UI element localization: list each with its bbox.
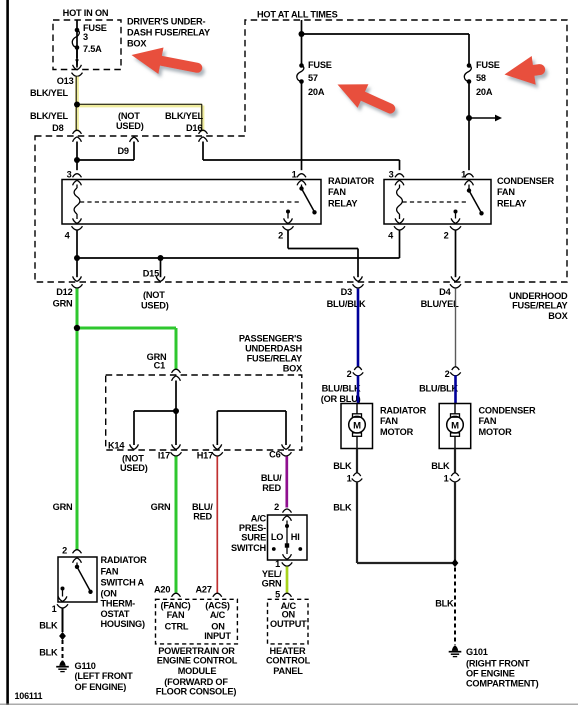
wire fuse3 top feed <box>76 20 78 66</box>
wire D16 to condenser pin3 <box>202 142 204 161</box>
connector pin4 radiator relay <box>73 218 82 223</box>
junction D15 tap <box>158 255 164 261</box>
svg-text:HEATER: HEATER <box>270 646 306 656</box>
underhood fuse/relay box (dashed outline) <box>35 20 567 282</box>
junction BLK switch <box>59 632 66 640</box>
wire branch to K14 <box>134 410 176 412</box>
svg-text:BLK/YEL: BLK/YEL <box>30 88 68 98</box>
svg-text:SURE: SURE <box>241 533 266 543</box>
connector I17 <box>172 444 181 449</box>
svg-text:USED): USED) <box>141 301 169 311</box>
svg-text:G110: G110 <box>75 661 96 671</box>
svg-text:2: 2 <box>347 369 352 379</box>
connector D9 (not used) <box>130 137 139 142</box>
svg-text:YEL/: YEL/ <box>262 569 282 579</box>
wire BLK to G110 (dashed) <box>62 640 64 660</box>
motor M1 RADIATOR FAN MOTOR <box>341 404 373 449</box>
wire BLU/BLK to radiator motor <box>357 375 360 403</box>
inline connector 2 (radiator motor) <box>354 367 362 370</box>
svg-text:HOUSING): HOUSING) <box>101 619 145 629</box>
connector D12 <box>73 276 82 281</box>
connector pin1 pressure switch <box>282 562 293 566</box>
svg-text:RED: RED <box>262 483 281 493</box>
svg-text:PANEL: PANEL <box>273 666 303 676</box>
connector H17 <box>213 444 222 449</box>
wire D15 drop <box>160 258 162 277</box>
svg-text:A20: A20 <box>154 585 170 595</box>
svg-text:BOX: BOX <box>283 364 303 374</box>
svg-text:4: 4 <box>388 231 394 241</box>
wire BLK radiator motor down <box>356 449 358 474</box>
svg-text:(NOT: (NOT <box>143 290 165 300</box>
svg-text:FUSE/RELAY: FUSE/RELAY <box>512 301 567 311</box>
svg-text:3: 3 <box>67 170 72 180</box>
svg-text:(NOT: (NOT <box>122 454 144 464</box>
wire BLK switch to junction <box>62 608 64 632</box>
wire BLK to G101 (dashed) <box>454 568 456 646</box>
svg-text:USED): USED) <box>116 121 144 131</box>
svg-text:1: 1 <box>52 604 57 614</box>
svg-text:CONTROL: CONTROL <box>266 656 311 666</box>
svg-text:RADIATOR: RADIATOR <box>328 176 375 186</box>
fuse 57 (20A) <box>297 66 304 82</box>
connector A20 <box>172 593 181 597</box>
svg-text:GRN: GRN <box>262 579 282 589</box>
wire condenser pin2 to D4 <box>455 230 457 277</box>
connector pin5 heater panel <box>283 593 292 597</box>
svg-text:1: 1 <box>292 170 297 180</box>
connector pin4 condenser relay <box>395 218 404 223</box>
svg-text:ON: ON <box>282 610 296 620</box>
svg-text:MODULE: MODULE <box>178 666 217 676</box>
pressure switch internal <box>283 516 292 521</box>
wire radiator pin4 to bus <box>76 230 78 277</box>
svg-text:GRN: GRN <box>151 502 171 512</box>
connector D8 <box>73 130 82 134</box>
wire fuse58 tap arrow <box>469 117 496 119</box>
svg-text:RELAY: RELAY <box>497 199 526 209</box>
svg-text:FUSE: FUSE <box>476 60 500 70</box>
svg-text:COMPARTMENT): COMPARTMENT) <box>466 679 539 689</box>
svg-text:1: 1 <box>461 170 466 180</box>
svg-text:I17: I17 <box>158 451 170 461</box>
svg-text:1: 1 <box>347 474 352 484</box>
wire branch to D9 <box>77 159 134 161</box>
wire YEL/GRN to heater panel <box>286 567 289 593</box>
page bottom edge line <box>0 703 578 705</box>
svg-text:A/C: A/C <box>251 514 267 524</box>
wire GRN to fan switch <box>76 331 79 550</box>
wire BLU/RED C6 to pressure switch <box>285 456 288 507</box>
svg-text:D4: D4 <box>439 287 451 297</box>
svg-text:CTRL: CTRL <box>165 622 189 632</box>
relay U2 CONDENSER FAN RELAY box <box>384 180 491 225</box>
junction fuse58 tap <box>466 115 472 121</box>
connector C6 <box>282 444 291 449</box>
svg-text:BLK: BLK <box>333 503 352 513</box>
svg-text:H17: H17 <box>197 451 213 461</box>
svg-text:A/C: A/C <box>210 610 226 620</box>
wire radiator pin2 to D3 <box>287 230 289 249</box>
connector D15 (not used) <box>156 276 165 281</box>
svg-text:3: 3 <box>389 170 394 180</box>
svg-text:57: 57 <box>308 73 318 83</box>
svg-text:2: 2 <box>444 231 449 241</box>
wire BLU/YEL D4 to connector <box>455 289 457 368</box>
svg-text:ENGINE CONTROL: ENGINE CONTROL <box>157 656 238 666</box>
wire H17-C6 jumper <box>216 411 218 445</box>
svg-text:UNDERDASH: UNDERDASH <box>245 344 302 354</box>
svg-text:D3: D3 <box>341 287 352 297</box>
svg-text:BLK: BLK <box>333 461 352 471</box>
junction C1/K14 <box>173 408 179 414</box>
svg-text:4: 4 <box>65 231 71 241</box>
svg-text:BLK: BLK <box>435 599 454 609</box>
svg-text:M: M <box>451 421 459 432</box>
svg-text:RADIATOR: RADIATOR <box>101 555 148 565</box>
svg-text:POWERTRAIN OR: POWERTRAIN OR <box>158 646 235 656</box>
switch S1 RADIATOR FAN SWITCH A box <box>58 557 97 602</box>
svg-text:1: 1 <box>275 559 280 569</box>
svg-text:BLU/YEL: BLU/YEL <box>421 299 459 309</box>
driver's underdash fuse/relay box (dashed) <box>53 20 121 70</box>
svg-text:3: 3 <box>83 32 88 42</box>
relay internal dashed link (condenser) <box>403 201 469 203</box>
svg-text:7.5A: 7.5A <box>83 44 102 54</box>
annotation arrow 2 (fuse 57) <box>338 84 391 108</box>
svg-text:D15: D15 <box>143 269 159 279</box>
svg-text:O13: O13 <box>57 76 74 86</box>
svg-text:BLK: BLK <box>431 461 450 471</box>
svg-text:2: 2 <box>62 546 67 556</box>
connector pin3 condenser relay <box>395 174 404 178</box>
svg-text:M: M <box>353 421 361 432</box>
svg-text:DASH FUSE/RELAY: DASH FUSE/RELAY <box>127 28 210 38</box>
svg-text:(RIGHT FRONT: (RIGHT FRONT <box>466 659 530 669</box>
svg-text:20A: 20A <box>476 87 493 97</box>
svg-text:2: 2 <box>445 369 450 379</box>
svg-text:(ON: (ON <box>101 589 118 599</box>
svg-text:G101: G101 <box>466 647 488 657</box>
svg-text:CONDENSER: CONDENSER <box>497 176 554 186</box>
fuse 58 (20A) <box>464 66 471 82</box>
wire BLU/BLK D3 to connector <box>357 289 360 368</box>
connector pin1 radiator relay <box>297 174 306 178</box>
svg-text:SWITCH: SWITCH <box>231 543 267 553</box>
svg-text:FLOOR CONSOLE): FLOOR CONSOLE) <box>156 687 237 697</box>
svg-text:20A: 20A <box>308 87 325 97</box>
motor M2 CONDENSER FAN MOTOR <box>439 404 471 449</box>
passenger's underdash fuse/relay box (dashed) <box>106 375 302 450</box>
wire BLK condenser to junction <box>454 481 456 563</box>
svg-text:RELAY: RELAY <box>328 199 357 209</box>
svg-text:OSTAT: OSTAT <box>101 609 130 619</box>
svg-text:BLK/YEL: BLK/YEL <box>165 111 203 121</box>
wire GRN I17 to A20 <box>175 456 178 592</box>
svg-text:BOX: BOX <box>127 39 147 49</box>
svg-text:2: 2 <box>278 231 283 241</box>
wire condenser pin4 riser <box>399 230 401 258</box>
svg-text:(NOT: (NOT <box>118 111 140 121</box>
svg-text:CONDENSER: CONDENSER <box>479 406 536 416</box>
svg-text:BLU/: BLU/ <box>261 473 282 483</box>
svg-text:BLK: BLK <box>39 621 58 631</box>
connector pin1 fan switch <box>57 604 68 608</box>
relay internal dashed link (radiator) <box>80 201 299 203</box>
svg-text:USED): USED) <box>120 463 148 473</box>
svg-text:BLU/BLK: BLU/BLK <box>419 384 458 394</box>
wire D8 to relay pin3 <box>76 142 78 161</box>
wire hot feed fuse57 <box>301 20 303 66</box>
svg-text:FAN: FAN <box>380 416 398 426</box>
svg-text:OUTPUT: OUTPUT <box>270 619 307 629</box>
relay U1 RADIATOR FAN RELAY box <box>62 180 321 225</box>
svg-text:FUSE: FUSE <box>308 60 332 70</box>
svg-text:RED: RED <box>193 512 212 522</box>
wire BLK radiator to junction <box>356 481 358 563</box>
wire fuse3 to O13 <box>76 48 78 59</box>
junction BLK motors <box>452 559 459 567</box>
svg-text:(OR BLU): (OR BLU) <box>321 394 361 404</box>
svg-text:BLK: BLK <box>39 648 58 658</box>
svg-text:C6: C6 <box>269 450 280 460</box>
svg-text:PASSENGER'S: PASSENGER'S <box>239 334 302 344</box>
connector pin2 fan switch <box>73 550 82 554</box>
svg-text:MOTOR: MOTOR <box>479 427 513 437</box>
svg-text:BLU/BLK: BLU/BLK <box>322 384 361 394</box>
wire BLU/BLK to condenser motor <box>454 375 457 403</box>
wire GRN to C1 <box>80 327 176 330</box>
switch S2 A/C PRESSURE SWITCH box <box>268 515 308 560</box>
ground G101 <box>452 646 458 651</box>
junction D8/D9 <box>74 157 80 163</box>
connector pin2 pressure switch <box>283 509 292 513</box>
svg-text:HI: HI <box>291 532 300 542</box>
svg-text:HOT AT ALL TIMES: HOT AT ALL TIMES <box>257 10 338 20</box>
junction O13/D16 split <box>74 102 80 108</box>
svg-text:(FORWARD OF: (FORWARD OF <box>164 677 228 687</box>
svg-text:K14: K14 <box>108 441 125 451</box>
inline connector 2 (condenser motor) <box>452 367 460 370</box>
svg-text:ON: ON <box>211 622 225 632</box>
svg-text:MOTOR: MOTOR <box>380 427 414 437</box>
connector O13 (box exit) <box>73 65 82 70</box>
connector pin2 radiator relay <box>284 218 293 223</box>
svg-text:PRES-: PRES- <box>239 523 266 533</box>
svg-text:D12: D12 <box>56 287 72 297</box>
connector D16 <box>199 130 208 134</box>
junction hot bus <box>299 31 305 37</box>
heater control panel box (dashed) <box>268 599 309 644</box>
connector D3 <box>354 276 363 281</box>
svg-text:FAN: FAN <box>167 610 185 620</box>
inline connector 1 (condenser) <box>451 473 459 476</box>
connector K14 (not used) <box>130 444 139 449</box>
inline connector 1 (radiator) <box>353 473 361 476</box>
wire ground-side bus <box>77 257 400 259</box>
svg-text:SWITCH A: SWITCH A <box>101 578 145 588</box>
svg-text:UNDERHOOD: UNDERHOOD <box>509 291 568 301</box>
svg-text:BLK/YEL: BLK/YEL <box>30 111 68 121</box>
svg-text:(LEFT FRONT: (LEFT FRONT <box>75 671 134 681</box>
svg-text:HOT IN ON: HOT IN ON <box>63 8 109 18</box>
svg-text:58: 58 <box>476 73 486 83</box>
svg-text:INPUT: INPUT <box>204 631 231 641</box>
connector A27 <box>213 593 222 597</box>
relay switch (radiator) <box>301 185 303 189</box>
svg-text:BOX: BOX <box>548 311 568 321</box>
wire BLK/YEL O13 to D8 (yellow halo) <box>75 77 79 132</box>
svg-text:DRIVER'S UNDER-: DRIVER'S UNDER- <box>127 17 205 27</box>
relay switch (condenser) <box>468 185 470 191</box>
svg-text:5: 5 <box>275 590 280 600</box>
relay coil (radiator) <box>76 185 78 189</box>
wire BLU/RED H17 to A27 <box>216 456 218 592</box>
svg-text:GRN: GRN <box>53 502 73 512</box>
svg-text:106111: 106111 <box>15 691 43 701</box>
svg-text:LO: LO <box>271 532 283 542</box>
wire GRN D12 down <box>76 289 79 328</box>
svg-text:FAN: FAN <box>479 416 497 426</box>
relay coil (condenser) <box>399 185 401 189</box>
svg-text:2: 2 <box>274 502 279 512</box>
connector C1 <box>172 369 181 373</box>
annotation arrow 1 (driver's box) <box>132 48 198 75</box>
PCM box (dashed) <box>156 599 238 644</box>
connector D4 <box>451 276 460 281</box>
annotation arrow 3 (fuse 58) <box>505 56 540 85</box>
svg-text:BLU/BLK: BLU/BLK <box>327 299 366 309</box>
svg-text:C1: C1 <box>154 361 165 371</box>
connector pin3 radiator relay <box>73 174 82 178</box>
junction GRN split <box>74 325 80 331</box>
fuse 3 (7.5A) <box>72 30 79 48</box>
fan switch internal <box>73 558 82 563</box>
svg-text:1: 1 <box>444 474 449 484</box>
svg-text:OF ENGINE: OF ENGINE <box>466 669 515 679</box>
svg-text:A27: A27 <box>196 585 212 595</box>
svg-text:D8: D8 <box>52 123 63 133</box>
svg-text:RADIATOR: RADIATOR <box>380 406 427 416</box>
connector pin1 condenser relay <box>465 174 474 178</box>
svg-text:THERM-: THERM- <box>101 599 136 609</box>
svg-text:GRN: GRN <box>53 299 73 309</box>
svg-text:FUSE/RELAY: FUSE/RELAY <box>247 354 302 364</box>
wire fuse58 to condenser relay pin1 <box>468 82 470 171</box>
ground G110 <box>59 661 65 666</box>
svg-text:BLU/: BLU/ <box>192 502 213 512</box>
wire C1 to I17 <box>175 381 177 446</box>
wire hot bus to fuse58 <box>302 33 470 35</box>
svg-text:FAN: FAN <box>497 187 515 197</box>
svg-text:FAN: FAN <box>101 567 119 577</box>
svg-text:OF ENGINE): OF ENGINE) <box>75 682 127 692</box>
wire fuse57 to radiator relay pin1 <box>301 82 303 171</box>
junction pin4 bus left <box>74 255 80 261</box>
svg-text:FAN: FAN <box>328 187 346 197</box>
svg-text:D9: D9 <box>118 146 129 156</box>
connector pin2 condenser relay <box>451 218 460 223</box>
page left border <box>6 0 9 705</box>
wire BLK condenser motor down <box>454 449 456 474</box>
